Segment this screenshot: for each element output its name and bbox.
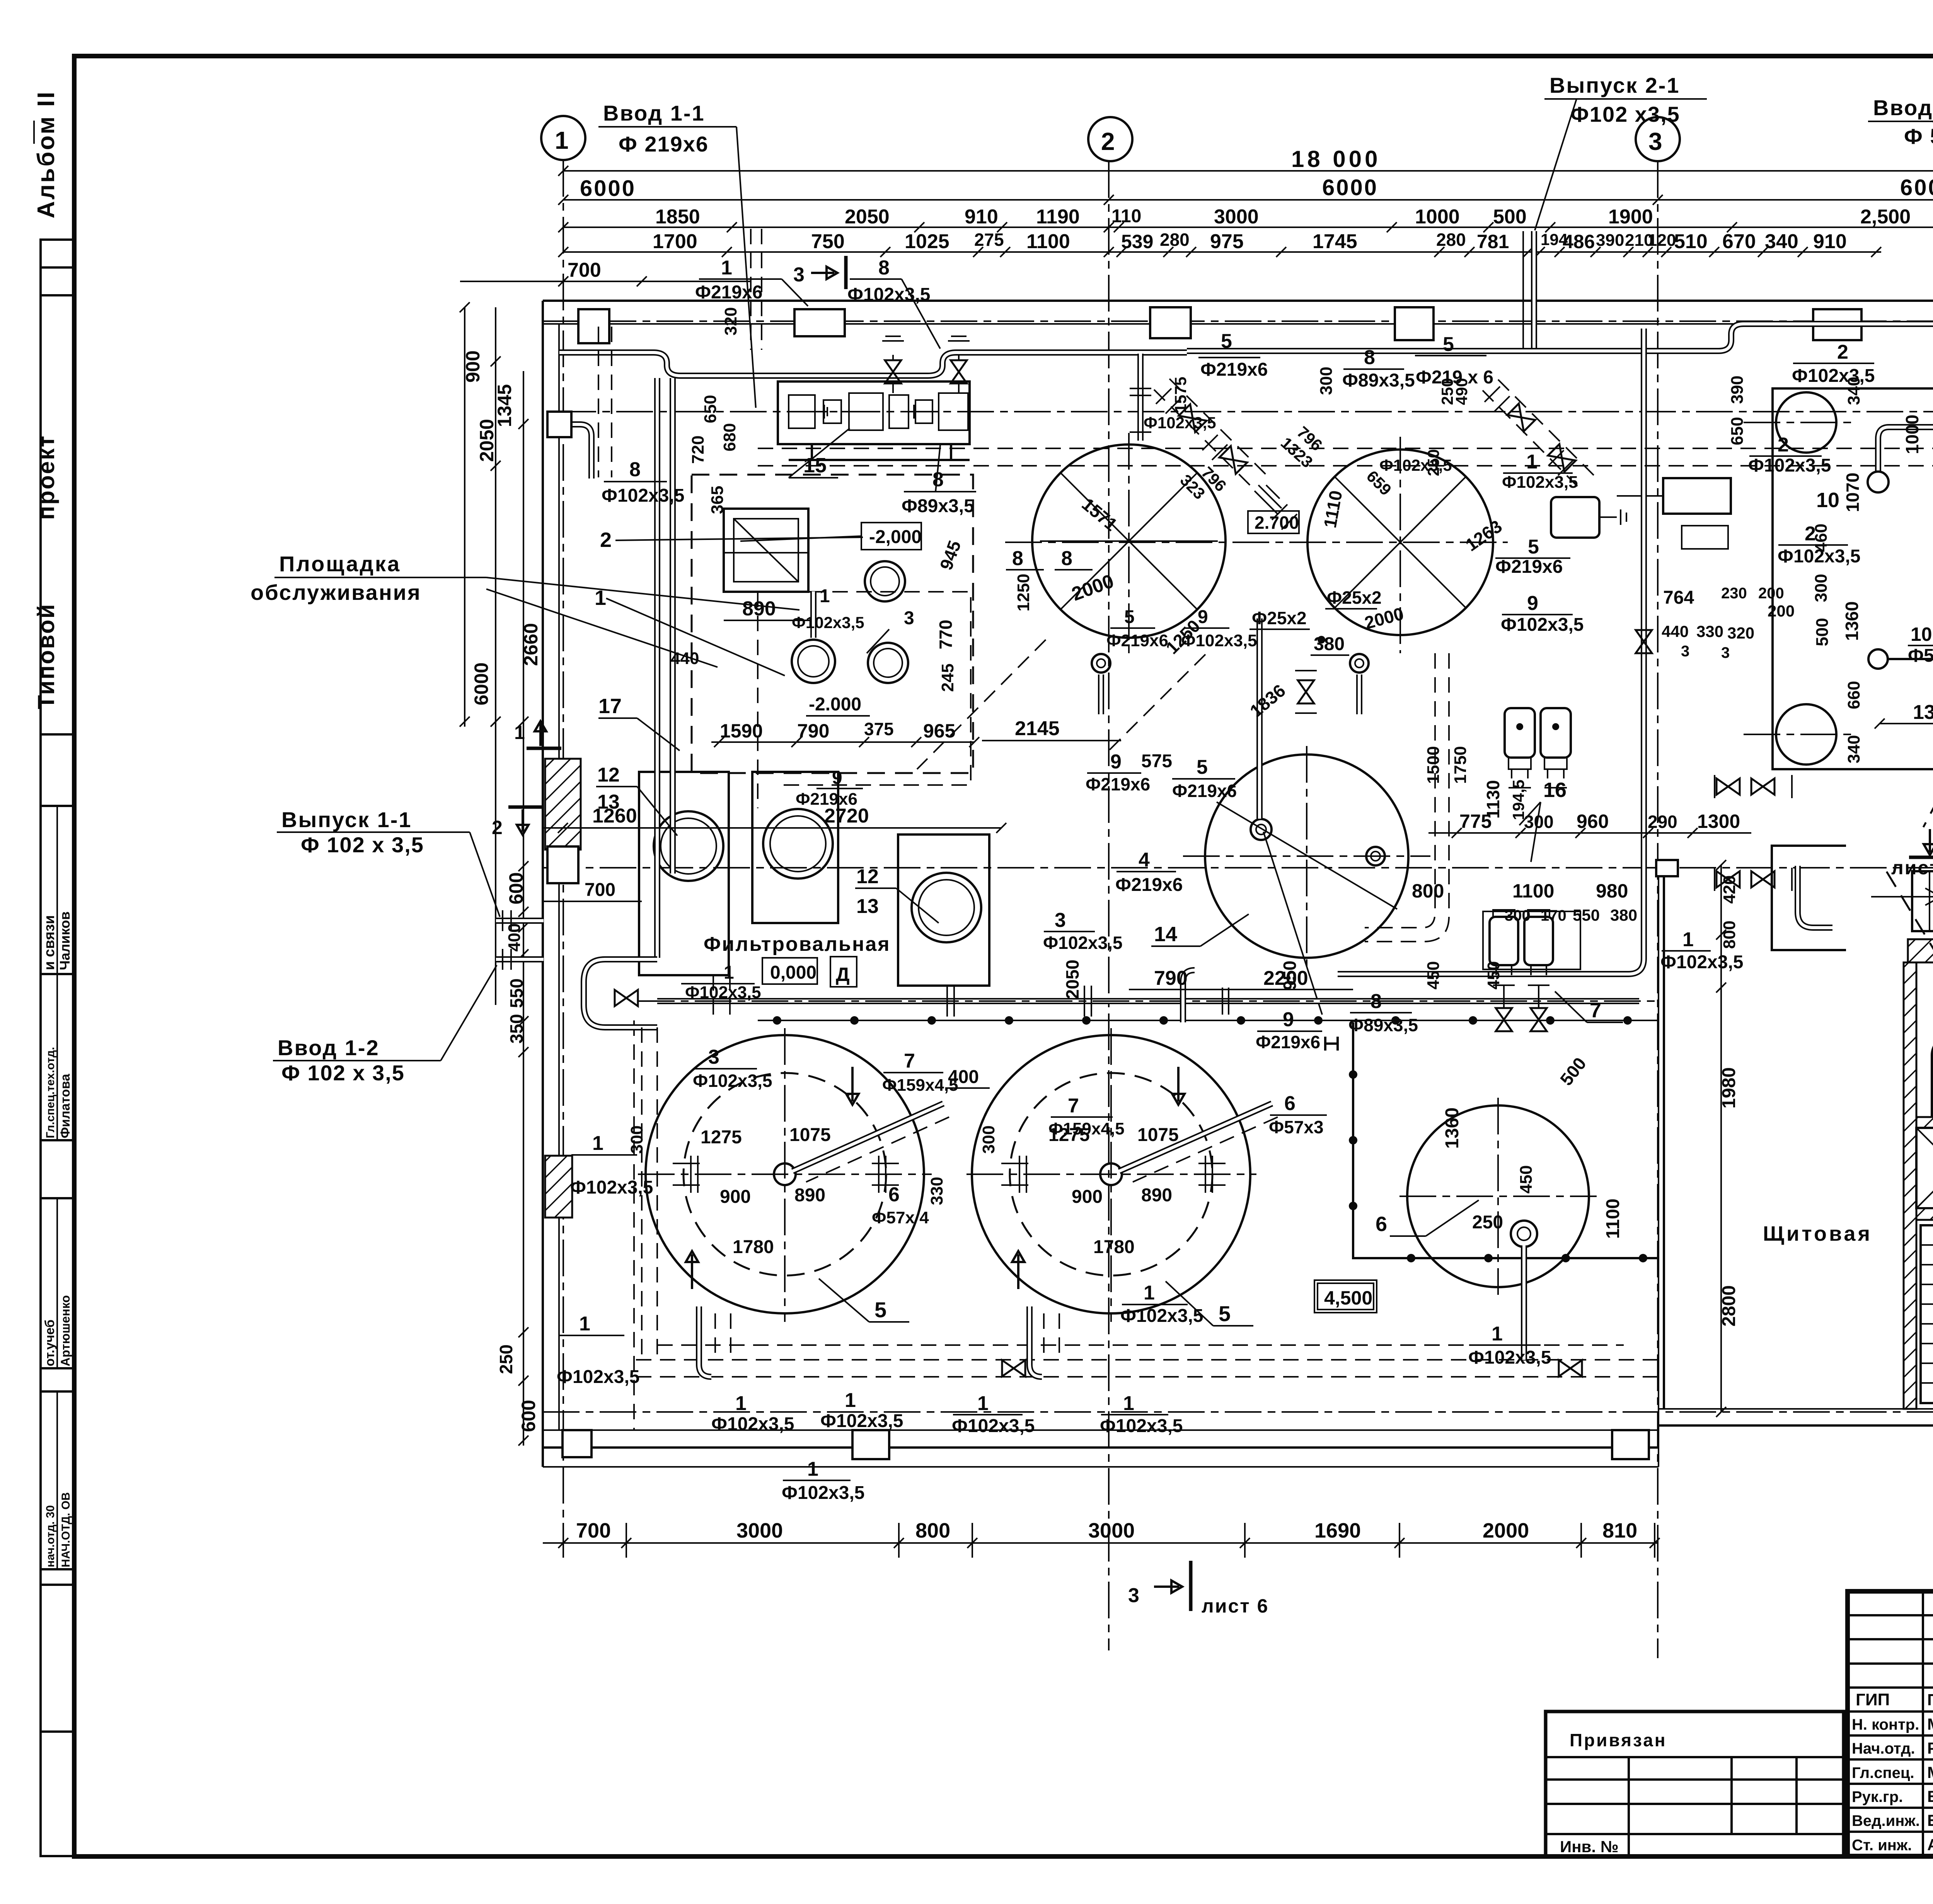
svg-text:Антоненкова: Антоненкова xyxy=(1927,1836,1933,1854)
svg-text:Ф 102 х 3,5: Ф 102 х 3,5 xyxy=(281,1061,405,1085)
svg-text:375: 375 xyxy=(864,719,894,739)
hydrocyclone unit 16 upper xyxy=(1505,708,1792,798)
svg-text:Ф159х4,5: Ф159х4,5 xyxy=(882,1076,958,1095)
svg-text:320: 320 xyxy=(1727,624,1754,642)
north wall sleeve boxes xyxy=(578,307,1933,343)
dashed riser at west top xyxy=(598,327,612,477)
ref 5 F219 mid2 xyxy=(1141,751,1237,801)
svg-text:2200: 2200 xyxy=(1263,967,1308,989)
svg-text:1: 1 xyxy=(1123,1392,1134,1415)
svg-text:ГИП: ГИП xyxy=(1856,1690,1890,1709)
svg-text:910: 910 xyxy=(1813,230,1847,253)
ref 8 F89 pumps xyxy=(902,445,976,516)
bottom dimension chain xyxy=(543,1519,1660,1558)
callout ploshchadka xyxy=(251,552,799,667)
room label schitovaya xyxy=(1763,1222,1872,1245)
tank circle top-left xyxy=(1032,433,1226,653)
svg-text:1275: 1275 xyxy=(701,1127,742,1148)
svg-text:1745: 1745 xyxy=(1313,230,1357,253)
ref 8 F89 mid xyxy=(1325,990,1418,1051)
svg-text:320: 320 xyxy=(721,307,740,335)
svg-text:1590: 1590 xyxy=(720,720,763,742)
dims 1100 980 xyxy=(1505,880,1637,924)
callout Vypusk 1-1 xyxy=(277,807,500,917)
tank 10 rect xyxy=(1617,478,1731,514)
ref 1 F102 schitovaya xyxy=(1660,928,1743,972)
svg-text:450: 450 xyxy=(1424,961,1443,989)
svg-text:Вед.инж.: Вед.инж. xyxy=(1852,1812,1920,1829)
ref 5 settling right xyxy=(1166,1281,1253,1326)
tank circle top-right xyxy=(1005,437,1508,653)
svg-text:1690: 1690 xyxy=(1314,1519,1361,1542)
svg-text:Ф102х3,5: Ф102х3,5 xyxy=(1144,414,1216,432)
svg-text:7: 7 xyxy=(904,1050,915,1072)
west wall hatched pier xyxy=(545,759,581,850)
svg-text:300: 300 xyxy=(979,1126,998,1154)
svg-text:Ф 219х6: Ф 219х6 xyxy=(619,132,709,156)
ref 16 xyxy=(1519,778,1567,862)
building west wall xyxy=(543,301,559,1467)
tank 9 rect with circles xyxy=(1744,388,1933,769)
refs 12 13 left xyxy=(596,764,677,836)
platform dashed rect xyxy=(692,475,973,773)
dim 890 xyxy=(724,598,810,620)
svg-text:Ф219х6: Ф219х6 xyxy=(1200,359,1268,380)
ref 1 F102 bottom-mid xyxy=(1468,1323,1551,1368)
svg-text:Ф102 х3,5: Ф102 х3,5 xyxy=(1570,102,1680,126)
ref 4 F219 14 xyxy=(1115,849,1249,946)
level box 4.500 xyxy=(1314,1280,1377,1313)
svg-text:900: 900 xyxy=(1072,1187,1103,1207)
dims 790 2200 xyxy=(1129,880,1444,989)
svg-text:и связи: и связи xyxy=(41,915,58,970)
schitovaya west wall xyxy=(1659,865,1664,1409)
svg-text:120: 120 xyxy=(1648,231,1676,250)
vertical pipe near axis 3 xyxy=(1338,329,1644,974)
diagonal flow lines mid xyxy=(917,640,1205,769)
shower cell xyxy=(1916,1128,1933,1220)
svg-text:486: 486 xyxy=(1563,231,1595,252)
svg-text:Ф102х3,5: Ф102х3,5 xyxy=(1502,473,1578,492)
svg-text:9: 9 xyxy=(1527,592,1538,615)
ref 17 xyxy=(598,695,680,751)
dim cluster 764 xyxy=(1662,585,1795,661)
pit square tank upper-left xyxy=(724,509,808,592)
svg-text:1900: 1900 xyxy=(1608,206,1653,228)
mid bottom dims row xyxy=(1428,811,1751,838)
svg-text:Привязан: Привязан xyxy=(1570,1730,1667,1750)
left vertical dashed risers xyxy=(642,975,730,1360)
svg-text:Выпуск 2-1: Выпуск 2-1 xyxy=(1549,73,1680,97)
svg-text:1: 1 xyxy=(724,962,734,983)
svg-text:680: 680 xyxy=(720,423,739,451)
svg-text:390: 390 xyxy=(1728,376,1747,404)
svg-text:1350: 1350 xyxy=(1913,701,1933,724)
svg-text:Ф25х2: Ф25х2 xyxy=(1252,608,1307,628)
svg-text:200: 200 xyxy=(1758,585,1784,602)
svg-text:700: 700 xyxy=(576,1519,611,1542)
svg-text:1190: 1190 xyxy=(1036,206,1080,228)
level box 2.700 xyxy=(1248,511,1299,533)
svg-text:Марионков: Марионков xyxy=(1927,1715,1933,1733)
ref 1 F102 small platform xyxy=(792,586,914,653)
svg-text:800: 800 xyxy=(1720,921,1739,949)
diag dim 500 xyxy=(1556,1054,1590,1089)
svg-text:14: 14 xyxy=(1154,923,1177,946)
ref 8 8 left of tank xyxy=(1006,547,1093,570)
dimension row detail chain B xyxy=(558,230,1881,257)
left circle bottom refs 6 F57 xyxy=(872,1184,929,1227)
signature table grid xyxy=(1848,1591,1933,1856)
svg-text:380: 380 xyxy=(1610,906,1637,924)
svg-text:Ввод 1-1: Ввод 1-1 xyxy=(603,101,705,125)
level box 0,000 xyxy=(681,958,817,1002)
svg-text:Ф57х3: Ф57х3 xyxy=(1269,1117,1324,1137)
bottom dashed pipe run xyxy=(636,1306,1659,1377)
svg-text:12: 12 xyxy=(856,865,879,888)
teplovoy vertical dims xyxy=(1728,341,1933,763)
dimension row 700 left xyxy=(460,259,750,286)
svg-text:450: 450 xyxy=(1484,961,1503,989)
svg-text:6: 6 xyxy=(888,1184,900,1206)
svg-text:965: 965 xyxy=(923,720,955,742)
svg-text:6: 6 xyxy=(1284,1092,1295,1115)
svg-text:5: 5 xyxy=(1443,333,1454,356)
ref 8 F89 top-mid xyxy=(1342,346,1415,391)
ref 1 F102 between xyxy=(1120,1282,1203,1326)
grid axis 3 xyxy=(1636,117,1680,1658)
grid axis В row xyxy=(543,300,1933,342)
svg-text:1130: 1130 xyxy=(1483,780,1503,819)
svg-text:Ф102х3,5: Ф102х3,5 xyxy=(693,1071,772,1091)
svg-text:6000: 6000 xyxy=(1900,175,1933,200)
svg-text:Типовой: Типовой xyxy=(33,603,59,709)
svg-text:Ф102х3,5: Ф102х3,5 xyxy=(1181,631,1257,650)
ref 1 F102 west low xyxy=(570,1132,653,1198)
right circle refs xyxy=(1043,909,1327,1138)
ref 1 F102 mid xyxy=(1502,451,1578,492)
svg-text:194,5: 194,5 xyxy=(1509,780,1527,820)
svg-text:660: 660 xyxy=(1844,681,1863,709)
svg-text:4,500: 4,500 xyxy=(1324,1287,1372,1309)
inner dashed pit boundary xyxy=(758,592,971,808)
svg-text:Выпуск 1-1: Выпуск 1-1 xyxy=(281,807,412,832)
ventkamera dashed diagonal B xyxy=(1887,872,1933,1391)
level -2.000 lower xyxy=(806,694,870,716)
drip funnel tank1 xyxy=(1092,654,1110,714)
svg-text:1500: 1500 xyxy=(1424,746,1443,784)
south wall sleeve boxes xyxy=(563,1430,1649,1459)
ref 5 F219 left-top xyxy=(1198,330,1268,380)
tank stub pipes left circle xyxy=(673,1156,1226,1193)
svg-text:1: 1 xyxy=(977,1392,989,1415)
svg-text:16: 16 xyxy=(1543,778,1567,802)
hydrocyclone circle 14 xyxy=(1183,746,1430,1015)
svg-text:700: 700 xyxy=(585,880,615,900)
svg-text:250: 250 xyxy=(1472,1212,1503,1233)
svg-text:380: 380 xyxy=(1314,634,1345,654)
filter tank 12 mid rect xyxy=(752,772,838,923)
svg-text:5: 5 xyxy=(1219,1301,1231,1326)
svg-text:9: 9 xyxy=(1110,751,1122,773)
svg-text:3000: 3000 xyxy=(736,1519,783,1542)
svg-text:1: 1 xyxy=(514,722,525,743)
svg-text:300: 300 xyxy=(1317,367,1336,395)
svg-text:200: 200 xyxy=(1768,602,1795,620)
svg-text:проект: проект xyxy=(33,435,59,520)
svg-text:Ф57х3: Ф57х3 xyxy=(1908,645,1933,666)
motor unit near tank 10 xyxy=(1551,497,1728,549)
svg-text:790: 790 xyxy=(1154,967,1188,989)
refs 1 F102 bottom row xyxy=(711,1389,1183,1503)
svg-text:Ф219х6: Ф219х6 xyxy=(1256,1032,1320,1052)
svg-text:НАЧ.ОТД. ОВ: НАЧ.ОТД. ОВ xyxy=(60,1492,72,1567)
svg-text:1360: 1360 xyxy=(1842,601,1862,641)
svg-text:764: 764 xyxy=(1663,588,1694,608)
svg-text:790: 790 xyxy=(797,720,829,742)
svg-text:2,500: 2,500 xyxy=(1860,206,1911,228)
svg-text:Ф89х3,5: Ф89х3,5 xyxy=(902,496,974,516)
diagonal pipe cluster right of tank2 xyxy=(1483,380,1595,486)
building north wall xyxy=(543,301,1933,324)
tank circle 6 bottom-middle xyxy=(1399,1098,1597,1295)
filter tank 12 left rect xyxy=(639,772,729,975)
svg-text:350: 350 xyxy=(506,1014,527,1044)
callout Vvod 10-1 xyxy=(1868,95,1933,232)
svg-text:5: 5 xyxy=(1197,756,1208,778)
svg-text:Щитовая: Щитовая xyxy=(1763,1222,1872,1245)
svg-text:1780: 1780 xyxy=(733,1237,774,1257)
svg-text:Ф102х3,5: Ф102х3,5 xyxy=(557,1367,639,1387)
small vertical dims west area xyxy=(671,307,740,668)
svg-text:170: 170 xyxy=(1541,907,1567,924)
svg-text:1075: 1075 xyxy=(789,1125,831,1145)
settling tank right diagonal pipe xyxy=(1119,1104,1278,1182)
svg-text:5: 5 xyxy=(1124,607,1135,627)
section mark 2 left xyxy=(492,807,543,838)
svg-text:2: 2 xyxy=(1837,341,1848,363)
svg-text:17: 17 xyxy=(598,695,622,718)
callout Vvod 1-1 xyxy=(598,101,756,408)
svg-text:1000: 1000 xyxy=(1415,206,1460,228)
svg-text:Ф102х3,5: Ф102х3,5 xyxy=(952,1416,1035,1436)
svg-text:Нач.отд.: Нач.отд. xyxy=(1852,1740,1915,1757)
dim 2145 xyxy=(982,717,1121,741)
ref 5 settling left xyxy=(819,1279,909,1322)
callout Vvod 1-2 xyxy=(273,965,497,1085)
sanuzel west wall xyxy=(1904,962,1916,1409)
svg-text:13: 13 xyxy=(856,895,879,918)
ref 9 F102 mid xyxy=(1501,592,1584,635)
svg-text:Марионков: Марионков xyxy=(1927,1763,1933,1781)
svg-text:3000: 3000 xyxy=(1214,206,1259,228)
dimension row 6000s xyxy=(558,175,1933,205)
svg-text:510: 510 xyxy=(1674,230,1708,253)
svg-text:3: 3 xyxy=(1128,1584,1139,1607)
svg-text:Гл.спец.: Гл.спец. xyxy=(1852,1764,1914,1781)
svg-text:Ф102х3,5: Ф102х3,5 xyxy=(792,613,864,632)
riser pipe below circle 6 xyxy=(1521,1245,1527,1360)
filter tank 13 right rect xyxy=(898,834,989,986)
svg-text:3: 3 xyxy=(793,264,805,286)
building south wall right part xyxy=(1659,1409,1933,1425)
pipe NW elbow xyxy=(547,412,591,883)
svg-text:600: 600 xyxy=(518,1400,539,1432)
left dimension chain xyxy=(460,302,542,1446)
svg-text:330: 330 xyxy=(1696,622,1723,640)
dims inside left settling tank xyxy=(627,1125,946,1257)
svg-text:лист 6: лист 6 xyxy=(1202,1595,1269,1617)
svg-text:1100: 1100 xyxy=(1026,230,1070,253)
inlet pipe vvod 10-1 xyxy=(1868,232,1933,492)
refs 12 13 mid xyxy=(855,865,939,923)
svg-text:670: 670 xyxy=(1722,230,1756,253)
drip funnel tank2 xyxy=(1350,654,1369,714)
schitovaya north boundary xyxy=(1656,846,1846,950)
privyazan table xyxy=(1546,1712,1844,1856)
pit wall around bottom circle 6 xyxy=(1349,1022,1659,1262)
svg-text:Ввод 1-2: Ввод 1-2 xyxy=(278,1035,380,1060)
svg-text:Ратников: Ратников xyxy=(1927,1739,1933,1757)
grid axis 2 xyxy=(1088,117,1132,1650)
svg-text:2000: 2000 xyxy=(1483,1519,1529,1542)
svg-text:1100: 1100 xyxy=(1603,1199,1623,1239)
ref 10 F57 xyxy=(1908,623,1933,666)
svg-text:975: 975 xyxy=(1210,230,1244,253)
circle6 dims xyxy=(1376,1107,1623,1239)
svg-text:Ф219х6: Ф219х6 xyxy=(796,790,857,809)
ref 7 hydro xyxy=(1555,991,1623,1022)
svg-text:7: 7 xyxy=(1590,999,1601,1022)
ref 1 F102 west lower xyxy=(557,1313,639,1387)
svg-text:1275: 1275 xyxy=(1048,1125,1090,1145)
svg-text:6000: 6000 xyxy=(580,176,636,201)
lockers wardrobe xyxy=(1921,1225,1933,1403)
svg-text:0,000: 0,000 xyxy=(770,962,816,983)
svg-text:550: 550 xyxy=(506,978,527,1008)
section mark 3 top xyxy=(793,256,846,289)
title block outer xyxy=(1848,1591,1933,1856)
dim 700 filter xyxy=(543,880,642,901)
callout Vypusk 2-1 xyxy=(1535,73,1707,230)
svg-text:1250: 1250 xyxy=(1014,574,1033,611)
pipe main top-right run xyxy=(1187,324,1933,421)
svg-text:1260: 1260 xyxy=(592,805,637,827)
svg-text:1780: 1780 xyxy=(1093,1237,1135,1257)
ref 5 F219 mid xyxy=(1495,536,1570,577)
svg-text:300: 300 xyxy=(627,1126,646,1154)
svg-text:340: 340 xyxy=(1765,230,1798,253)
tank diagonal dims xyxy=(1069,463,1506,721)
svg-text:1: 1 xyxy=(807,1458,818,1480)
svg-text:890: 890 xyxy=(1141,1185,1172,1206)
svg-text:575: 575 xyxy=(1141,751,1172,771)
svg-text:650: 650 xyxy=(701,395,720,423)
svg-text:Ф102х3,5: Ф102х3,5 xyxy=(685,983,761,1002)
svg-text:1075: 1075 xyxy=(1137,1125,1179,1145)
dimension row detail chain A xyxy=(558,204,1933,232)
svg-text:Ф102х3,5: Ф102х3,5 xyxy=(1660,952,1743,972)
svg-text:280: 280 xyxy=(1160,230,1190,250)
stairs xyxy=(1871,871,1933,931)
svg-text:910: 910 xyxy=(965,206,998,228)
grid axis Б row xyxy=(543,846,1933,889)
dims inside right settling tank xyxy=(979,1125,1179,1257)
svg-text:1025: 1025 xyxy=(905,230,949,253)
svg-text:нач.отд. 30: нач.отд. 30 xyxy=(44,1505,57,1567)
svg-text:2: 2 xyxy=(1778,434,1789,456)
svg-text:460: 460 xyxy=(1812,524,1831,552)
svg-text:9: 9 xyxy=(832,768,842,788)
bottom area inner dashed boundary xyxy=(634,1020,1659,1430)
stairs room north hatched wall xyxy=(1908,939,1933,972)
svg-text:9: 9 xyxy=(1198,607,1208,627)
settling tank bottom-left xyxy=(638,1028,932,1322)
svg-text:Ф102х3,5: Ф102х3,5 xyxy=(1468,1347,1551,1368)
svg-text:Ф25х2: Ф25х2 xyxy=(1327,588,1382,608)
Vvod 1-1 inlet riser xyxy=(751,229,762,350)
svg-text:Артюшенко: Артюшенко xyxy=(58,1295,72,1366)
svg-text:8: 8 xyxy=(1364,346,1375,369)
svg-text:781: 781 xyxy=(1477,231,1509,252)
svg-text:960: 960 xyxy=(1577,811,1609,832)
svg-text:2050: 2050 xyxy=(1062,960,1082,999)
svg-text:3: 3 xyxy=(1681,643,1689,660)
svg-text:Ф57х 4: Ф57х 4 xyxy=(872,1208,929,1227)
svg-text:3000: 3000 xyxy=(1088,1519,1135,1542)
svg-text:550: 550 xyxy=(1573,906,1600,924)
svg-text:980: 980 xyxy=(1596,880,1628,902)
svg-text:Ф102х3,5: Ф102х3,5 xyxy=(1748,455,1831,476)
building south wall left part xyxy=(543,1409,1659,1467)
svg-text:лист 6: лист 6 xyxy=(1891,857,1933,879)
vertical dashed pipe mid xyxy=(1365,653,1449,942)
ref 8 F102 top xyxy=(847,257,940,349)
svg-text:Чаликов: Чаликов xyxy=(57,911,73,970)
svg-text:Филатова: Филатова xyxy=(58,1073,73,1138)
misc right of pumps xyxy=(796,574,1382,809)
svg-text:Ф102х3,5: Ф102х3,5 xyxy=(1379,456,1452,474)
svg-text:5: 5 xyxy=(874,1298,886,1322)
svg-text:Ф219х6: Ф219х6 xyxy=(1115,875,1183,895)
svg-text:5: 5 xyxy=(1528,536,1539,558)
svg-text:Ф219х6: Ф219х6 xyxy=(695,282,762,303)
ref 15 pumps xyxy=(789,428,850,478)
svg-text:Ф102х3,5: Ф102х3,5 xyxy=(570,1177,653,1198)
svg-text:230: 230 xyxy=(1721,585,1747,602)
svg-text:Инв. №: Инв. № xyxy=(1560,1838,1619,1856)
svg-text:8: 8 xyxy=(1061,547,1072,570)
svg-text:1: 1 xyxy=(1144,1282,1155,1304)
svg-text:340: 340 xyxy=(1844,377,1863,405)
svg-text:9: 9 xyxy=(1283,1008,1294,1031)
west wall pier 2 xyxy=(545,1156,572,1218)
svg-text:Гл.спец.тех.отд.: Гл.спец.тех.отд. xyxy=(44,1047,57,1138)
svg-text:Ф219х6: Ф219х6 xyxy=(1495,557,1563,577)
svg-text:Ф89х3,5: Ф89х3,5 xyxy=(1342,370,1415,391)
svg-text:110: 110 xyxy=(1111,206,1141,227)
svg-text:400: 400 xyxy=(505,923,524,952)
svg-text:1: 1 xyxy=(845,1389,856,1412)
svg-text:440: 440 xyxy=(1662,622,1689,640)
svg-text:3: 3 xyxy=(904,608,914,628)
svg-text:280: 280 xyxy=(1436,230,1466,250)
svg-text:Пивторак: Пивторак xyxy=(1927,1691,1933,1709)
svg-text:обслуживания: обслуживания xyxy=(251,580,421,605)
vertical feed pipes to filter room xyxy=(657,378,673,958)
svg-text:от.учеб: от.учеб xyxy=(43,1320,57,1366)
settling tank left diagonal pipe xyxy=(793,1104,949,1182)
